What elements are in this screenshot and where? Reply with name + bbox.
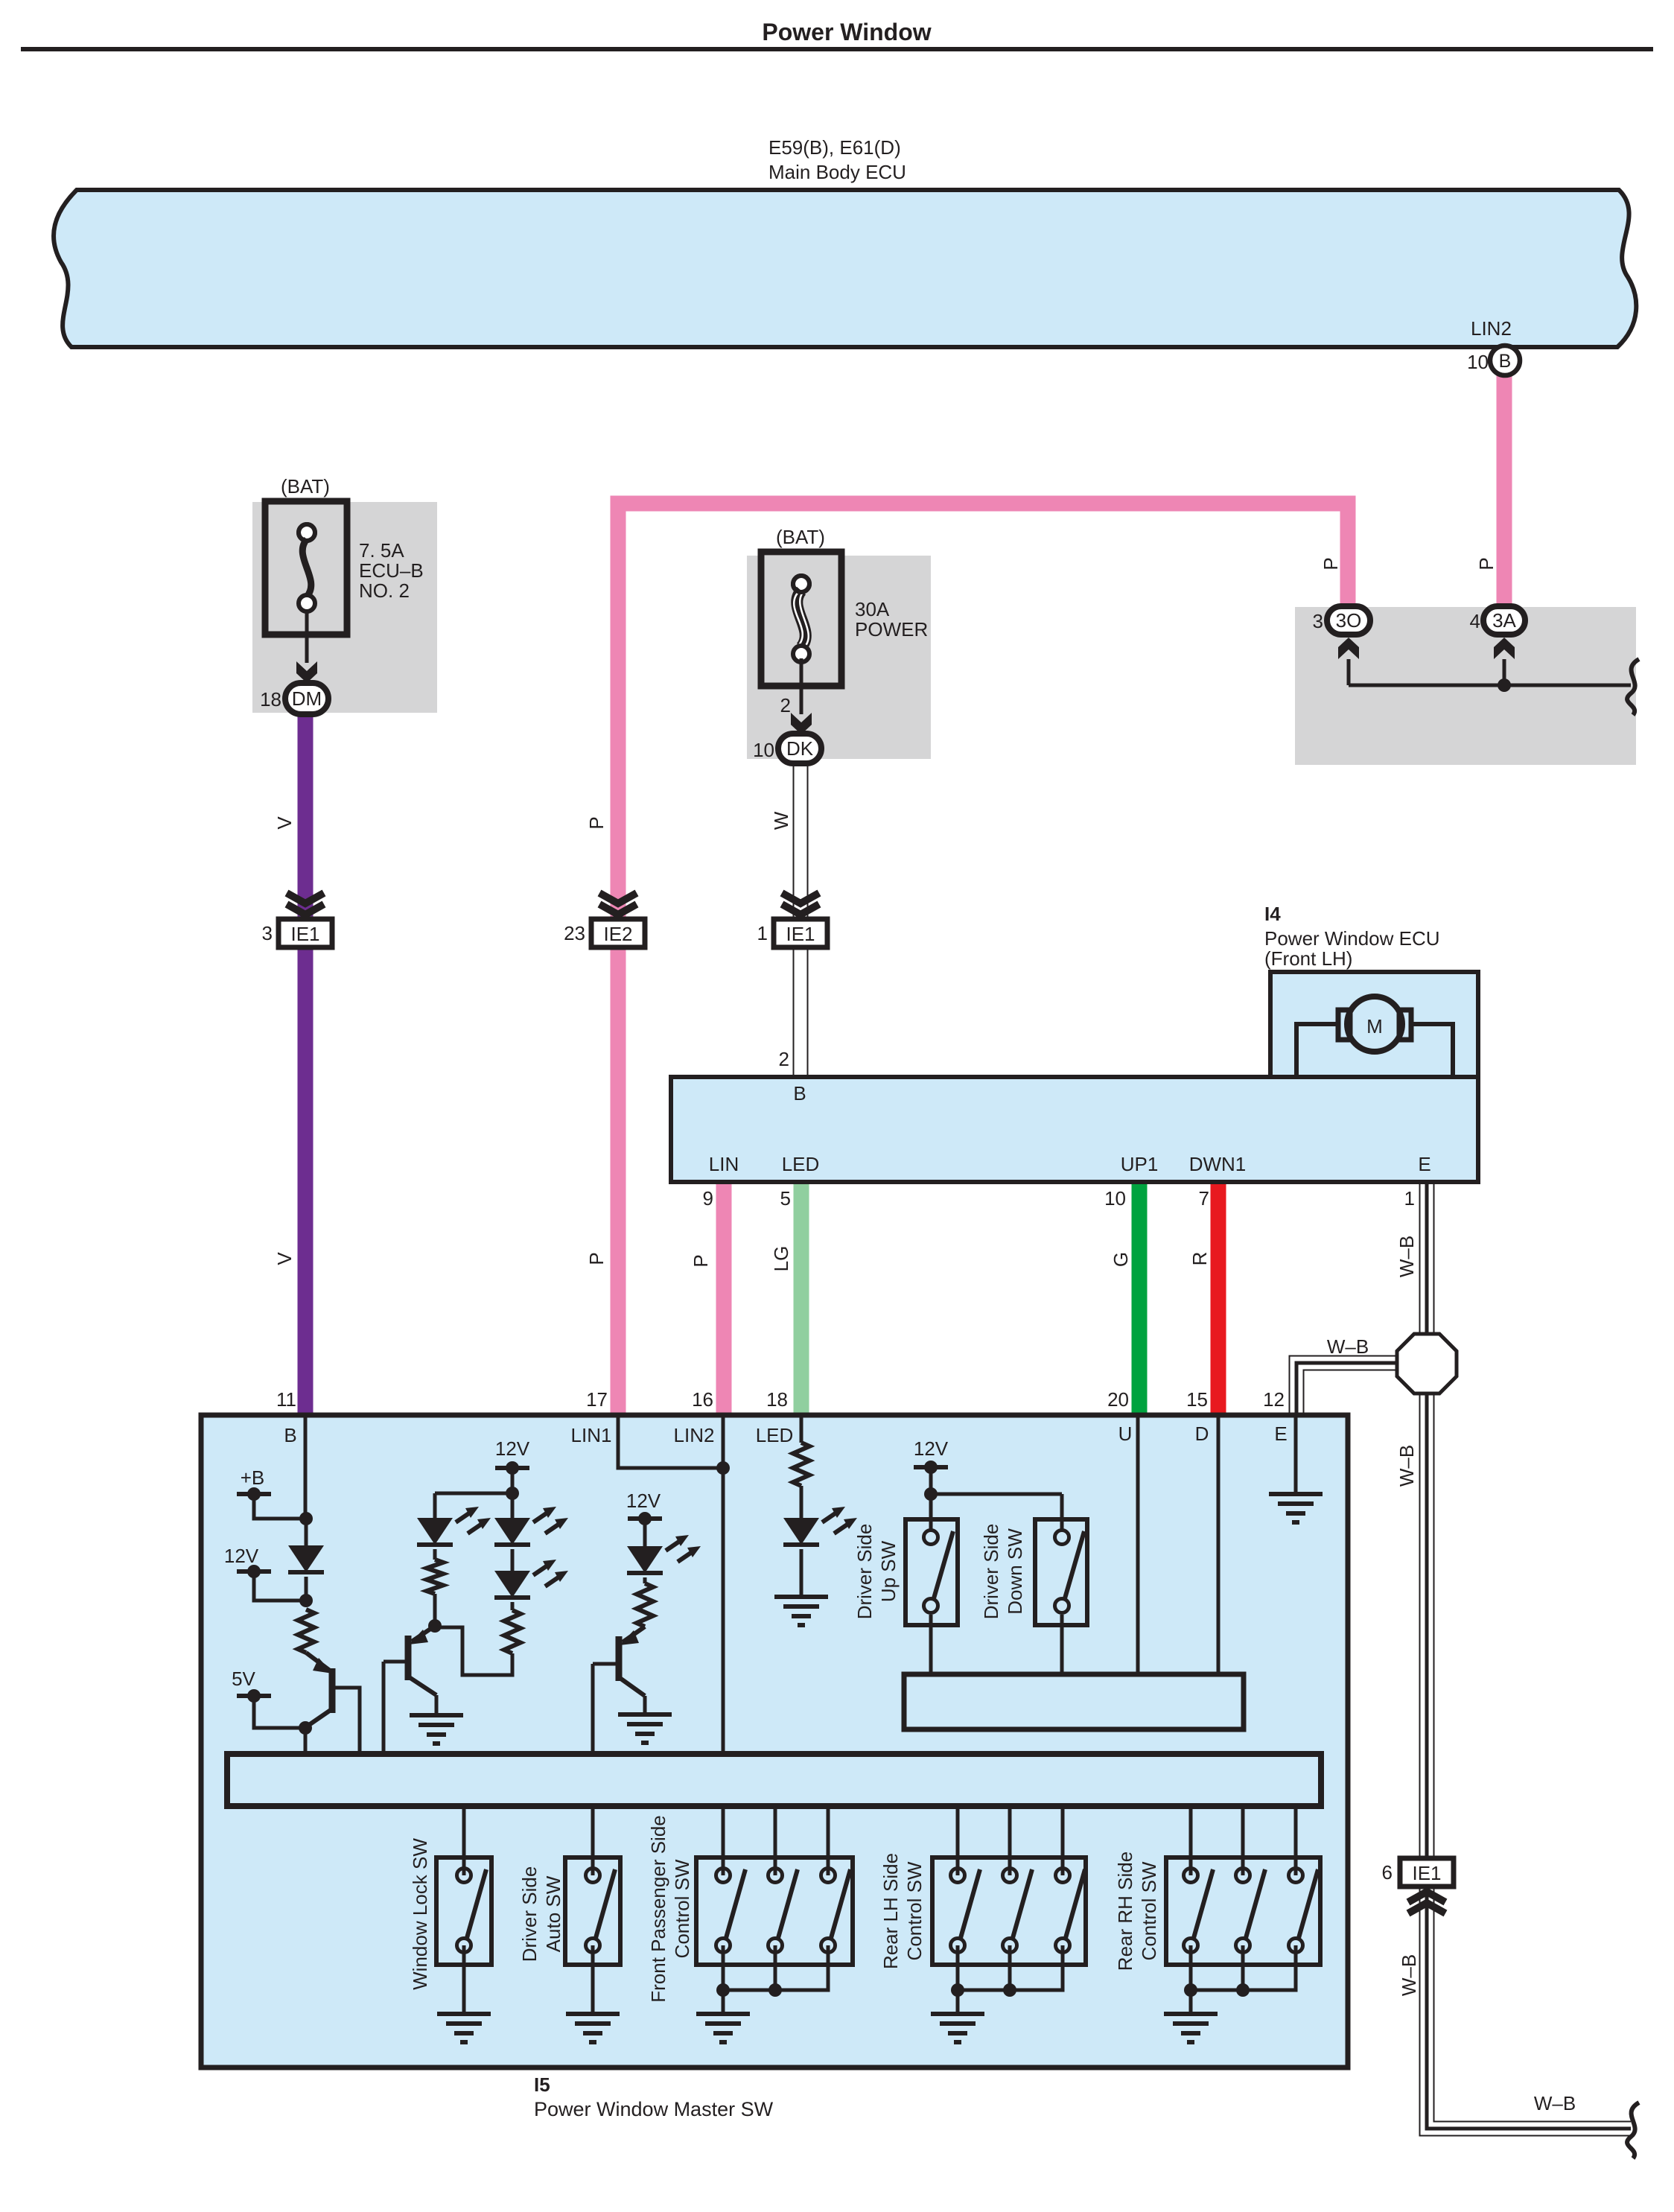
svg-text:M: M xyxy=(1366,1015,1383,1037)
svg-text:2: 2 xyxy=(780,694,791,716)
svg-text:B: B xyxy=(284,1424,296,1446)
svg-text:G: G xyxy=(1110,1252,1132,1267)
svg-text:9: 9 xyxy=(703,1187,713,1210)
svg-text:7. 5A: 7. 5A xyxy=(359,539,404,562)
svg-text:7: 7 xyxy=(1199,1187,1209,1210)
svg-text:5V: 5V xyxy=(232,1668,255,1690)
svg-text:11: 11 xyxy=(276,1388,296,1411)
svg-text:E: E xyxy=(1418,1153,1430,1175)
svg-text:16: 16 xyxy=(692,1388,713,1411)
svg-text:D: D xyxy=(1195,1423,1209,1445)
svg-text:W: W xyxy=(770,811,792,830)
svg-text:3O: 3O xyxy=(1336,609,1362,632)
svg-text:LIN: LIN xyxy=(709,1153,739,1175)
svg-text:IE2: IE2 xyxy=(603,923,632,945)
svg-text:12V: 12V xyxy=(224,1545,259,1567)
svg-text:E: E xyxy=(1274,1423,1287,1445)
svg-text:2: 2 xyxy=(779,1048,789,1070)
svg-text:NO. 2: NO. 2 xyxy=(359,579,410,602)
svg-text:12: 12 xyxy=(1263,1388,1285,1411)
svg-text:POWER: POWER xyxy=(855,618,928,641)
svg-text:+B: +B xyxy=(241,1466,265,1489)
svg-text:3A: 3A xyxy=(1492,609,1516,632)
svg-text:W–B: W–B xyxy=(1398,1954,1420,1996)
svg-text:10: 10 xyxy=(753,739,774,761)
svg-text:LG: LG xyxy=(770,1246,792,1272)
svg-text:LED: LED xyxy=(756,1424,794,1446)
svg-text:Power Window ECU: Power Window ECU xyxy=(1264,927,1440,950)
svg-text:U: U xyxy=(1118,1423,1133,1445)
svg-text:20: 20 xyxy=(1107,1388,1129,1411)
svg-text:10: 10 xyxy=(1467,351,1489,373)
svg-text:IE1: IE1 xyxy=(786,923,815,945)
svg-text:Power Window Master SW: Power Window Master SW xyxy=(534,2098,774,2120)
svg-text:1: 1 xyxy=(757,922,768,944)
svg-text:10: 10 xyxy=(1104,1187,1126,1210)
svg-text:17: 17 xyxy=(586,1388,608,1411)
svg-text:UP1: UP1 xyxy=(1121,1153,1159,1175)
svg-text:LIN1: LIN1 xyxy=(571,1424,612,1446)
svg-text:B: B xyxy=(1499,351,1512,372)
svg-text:Driver Side: Driver Side xyxy=(853,1524,876,1620)
svg-text:R: R xyxy=(1188,1252,1211,1266)
svg-text:Driver Side: Driver Side xyxy=(980,1524,1002,1620)
svg-text:Front Passenger Side: Front Passenger Side xyxy=(647,1815,669,2002)
svg-text:3: 3 xyxy=(1313,610,1323,632)
svg-text:Power Window: Power Window xyxy=(762,19,931,45)
svg-text:ECU–B: ECU–B xyxy=(359,559,424,582)
svg-text:Auto SW: Auto SW xyxy=(542,1875,564,1952)
svg-text:Up SW: Up SW xyxy=(877,1540,900,1602)
svg-text:1: 1 xyxy=(1404,1187,1415,1210)
svg-text:DWN1: DWN1 xyxy=(1189,1153,1247,1175)
svg-text:B: B xyxy=(793,1082,806,1105)
svg-text:12V: 12V xyxy=(626,1490,661,1512)
svg-text:Rear LH Side: Rear LH Side xyxy=(879,1853,902,1969)
svg-text:18: 18 xyxy=(260,688,281,711)
svg-text:3: 3 xyxy=(262,922,273,944)
svg-text:P: P xyxy=(585,816,608,829)
svg-text:P: P xyxy=(585,1252,608,1265)
svg-text:LIN2: LIN2 xyxy=(1471,317,1512,340)
svg-text:(BAT): (BAT) xyxy=(281,475,330,498)
svg-text:Window Lock SW: Window Lock SW xyxy=(409,1838,431,1990)
svg-text:12V: 12V xyxy=(914,1437,949,1460)
svg-text:IE1: IE1 xyxy=(290,923,319,945)
svg-text:Down SW: Down SW xyxy=(1004,1528,1026,1615)
svg-text:W–B: W–B xyxy=(1395,1236,1418,1277)
svg-text:18: 18 xyxy=(766,1388,788,1411)
svg-text:I4: I4 xyxy=(1264,903,1281,925)
svg-text:6: 6 xyxy=(1382,1861,1393,1884)
svg-text:Control SW: Control SW xyxy=(671,1859,693,1958)
svg-text:23: 23 xyxy=(564,922,585,944)
svg-text:Rear RH Side: Rear RH Side xyxy=(1114,1852,1136,1971)
svg-text:12V: 12V xyxy=(495,1437,530,1460)
svg-text:W–B: W–B xyxy=(1327,1335,1369,1358)
svg-text:W–B: W–B xyxy=(1534,2092,1576,2114)
svg-text:Control SW: Control SW xyxy=(903,1861,926,1960)
svg-text:Driver Side: Driver Side xyxy=(518,1866,541,1962)
svg-text:(Front LH): (Front LH) xyxy=(1264,947,1352,970)
svg-text:I5: I5 xyxy=(534,2073,550,2096)
svg-text:V: V xyxy=(273,816,296,830)
svg-text:(BAT): (BAT) xyxy=(776,526,825,548)
svg-text:DM: DM xyxy=(292,687,322,710)
svg-text:4: 4 xyxy=(1470,610,1480,632)
svg-text:Main Body ECU: Main Body ECU xyxy=(768,161,906,183)
svg-text:5: 5 xyxy=(780,1187,791,1210)
svg-text:P: P xyxy=(690,1254,712,1267)
svg-text:W–B: W–B xyxy=(1395,1445,1418,1487)
svg-text:P: P xyxy=(1320,557,1342,570)
svg-text:LIN2: LIN2 xyxy=(674,1424,715,1446)
svg-text:15: 15 xyxy=(1186,1388,1208,1411)
svg-text:E59(B), E61(D): E59(B), E61(D) xyxy=(768,136,901,159)
svg-text:P: P xyxy=(1475,557,1498,570)
svg-text:IE1: IE1 xyxy=(1412,1862,1441,1884)
svg-text:Control SW: Control SW xyxy=(1138,1861,1160,1960)
svg-text:DK: DK xyxy=(786,737,814,760)
svg-text:30A: 30A xyxy=(855,598,890,620)
svg-text:V: V xyxy=(273,1252,296,1265)
svg-text:LED: LED xyxy=(782,1153,820,1175)
